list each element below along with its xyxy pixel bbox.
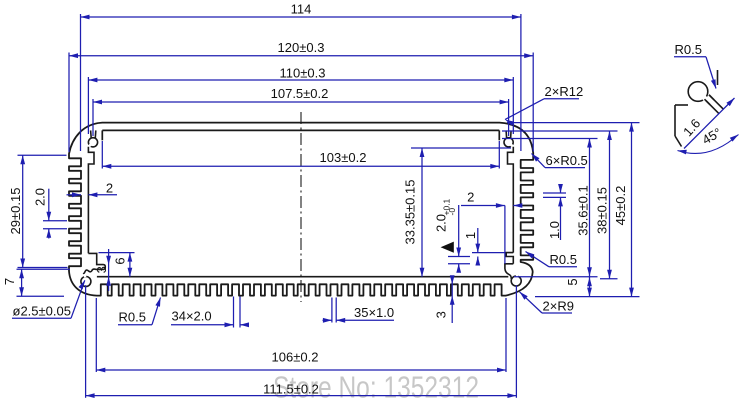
- left lid lip: [101, 130, 103, 140]
- detail view: corner screw channel: [675, 70, 724, 147]
- right PCB rib: [506, 253, 513, 264]
- dimension 2 (left wall): [67, 194, 82, 196]
- svg-text:35.6±0.1: 35.6±0.1: [576, 185, 591, 236]
- svg-text:106±0.2: 106±0.2: [272, 350, 319, 365]
- svg-text:3: 3: [94, 266, 109, 273]
- cavity floor: [97, 276, 508, 278]
- svg-text:110±0.3: 110±0.3: [280, 65, 326, 80]
- dimension 6: [128, 253, 133, 277]
- svg-text:1.0: 1.0: [547, 221, 562, 239]
- svg-text:1: 1: [463, 232, 478, 239]
- datum triangle: [441, 242, 454, 253]
- dimension 120±0.3: [69, 53, 533, 58]
- svg-text:3: 3: [434, 311, 449, 318]
- top-right screw boss: [504, 130, 513, 147]
- dimension 29±0.15: [20, 155, 25, 267]
- left wall inner surface: [88, 147, 94, 254]
- svg-text:2.0: 2.0: [434, 214, 449, 232]
- dimension 5: [587, 277, 592, 286]
- bottom-right screw hole: [511, 276, 521, 286]
- right wall inner surface: [508, 147, 514, 253]
- dimension 114: [81, 15, 521, 20]
- dimension 111.5±0.2: [86, 393, 517, 398]
- dimension 2.0 +0.1/-0 (pcb slot): [458, 205, 460, 257]
- dimension 107.5±0.2: [93, 100, 509, 105]
- svg-text:2: 2: [467, 190, 474, 205]
- centerline: [300, 112, 302, 302]
- svg-text:R0.5: R0.5: [119, 310, 146, 325]
- dimension 2.0 (left fin gap): [48, 189, 50, 221]
- dimension 33.35±0.15: [420, 148, 425, 277]
- svg-text:45±0.2: 45±0.2: [613, 186, 628, 226]
- dimension 103±0.2: [102, 164, 499, 169]
- dimension 1.0 (right fin): [560, 185, 562, 193]
- svg-text:29±0.15: 29±0.15: [8, 188, 23, 235]
- svg-text:2×R9: 2×R9: [543, 298, 574, 313]
- extension lines horizontal: [507, 122, 640, 124]
- bottom-left screw hole: [81, 277, 91, 287]
- svg-text:2×R12: 2×R12: [545, 84, 584, 99]
- svg-text:38±0.15: 38±0.15: [595, 187, 610, 234]
- svg-text:ø2.5±0.05: ø2.5±0.05: [13, 304, 71, 319]
- svg-text:111.5±0.2: 111.5±0.2: [263, 381, 319, 396]
- svg-text:114: 114: [291, 2, 312, 17]
- dimension 3 (left step): [108, 249, 110, 291]
- dimension 7: [19, 269, 24, 296]
- svg-text:33.35±0.15: 33.35±0.15: [403, 180, 418, 245]
- dimension 45±0.2: [629, 123, 634, 297]
- dimension 110±0.3: [88, 78, 513, 83]
- svg-text:107.5±0.2: 107.5±0.2: [271, 86, 329, 101]
- dimension 35.6±0.1: [589, 139, 591, 297]
- svg-text:2.0: 2.0: [33, 188, 48, 206]
- svg-text:2: 2: [106, 181, 113, 196]
- svg-text:5: 5: [565, 278, 580, 285]
- svg-text:35×1.0: 35×1.0: [354, 305, 394, 320]
- right lid lip: [498, 130, 500, 140]
- dimension 3 (bottom fin height): [451, 277, 453, 323]
- lid inner surface: [102, 129, 499, 131]
- label 6xR0.5: [532, 153, 588, 168]
- dimension 2 (right step): [461, 205, 505, 207]
- label R0.5 right: [526, 252, 578, 268]
- svg-text:R0.5: R0.5: [550, 252, 577, 267]
- dimension 1.6 / 45° detail: [684, 98, 735, 149]
- profile outer outline with fins: [69, 123, 533, 296]
- dimension 106±0.2: [96, 368, 506, 373]
- label R0.5 bottom: [118, 298, 161, 325]
- svg-text:R0.5: R0.5: [675, 42, 702, 57]
- top-left screw boss: [88, 130, 97, 147]
- label dia 2.5±0.05: [12, 280, 85, 318]
- bottom-right step: [505, 264, 513, 279]
- svg-text:103±0.2: 103±0.2: [320, 150, 367, 165]
- svg-text:120±0.3: 120±0.3: [278, 40, 325, 55]
- svg-text:6×R0.5: 6×R0.5: [546, 153, 588, 168]
- dimension 38±0.15: [607, 131, 612, 279]
- svg-text:6: 6: [113, 257, 128, 264]
- svg-text:-0: -0: [447, 208, 457, 216]
- label 2xR9: [520, 292, 574, 314]
- svg-text:34×2.0: 34×2.0: [172, 309, 212, 324]
- extension lines vertical: [80, 14, 82, 151]
- dimension 1 (rib): [477, 228, 479, 253]
- svg-text:7: 7: [2, 278, 17, 285]
- bottom-left support block and shelf: [83, 253, 105, 274]
- label 2xR12: [505, 84, 583, 126]
